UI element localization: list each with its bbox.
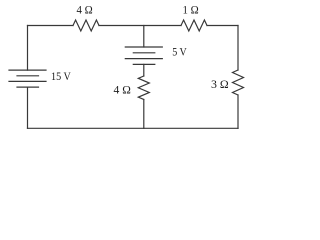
wire right branch upper xyxy=(237,26,239,71)
wire middle branch between battery and resistor xyxy=(143,64,145,76)
resistor R3 4ohm (middle vertical zigzag) xyxy=(138,76,149,100)
resistor R2 1ohm (top right zigzag) xyxy=(181,20,207,31)
svg-text:15 V: 15 V xyxy=(51,69,71,83)
svg-text:5 V: 5 V xyxy=(172,45,187,59)
wire right branch lower xyxy=(237,95,239,128)
battery B1 15V plate short xyxy=(17,75,39,77)
wire left branch lower xyxy=(27,87,29,128)
svg-text:3 Ω: 3 Ω xyxy=(211,77,229,91)
battery B2 5V plate short xyxy=(133,52,155,54)
wire top-middle segment xyxy=(99,25,181,27)
wire middle branch top xyxy=(143,26,145,48)
battery B1 15V plate long bottom xyxy=(9,80,46,82)
battery B2 5V plate short bottom xyxy=(133,63,155,65)
wire top-right segment xyxy=(207,25,238,27)
battery B2 5V plate long bottom xyxy=(125,58,162,60)
battery B2 5V plate long top xyxy=(125,46,162,48)
resistor R1 4ohm (top left zigzag) xyxy=(73,20,99,31)
resistor R4 3ohm (right vertical zigzag) xyxy=(233,70,244,95)
wire left branch upper xyxy=(27,26,29,71)
battery B1 15V plate long top xyxy=(9,69,46,71)
svg-text:4 Ω: 4 Ω xyxy=(114,83,131,97)
svg-text:4 Ω: 4 Ω xyxy=(77,3,93,17)
wire bottom xyxy=(28,127,239,129)
battery B1 15V plate short bottom xyxy=(17,86,39,88)
svg-text:1 Ω: 1 Ω xyxy=(183,3,199,17)
wire middle branch bottom xyxy=(143,100,145,129)
wire top-left segment xyxy=(28,25,74,27)
